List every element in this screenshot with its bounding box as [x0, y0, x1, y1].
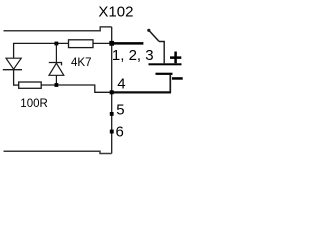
pin 6 node — [110, 130, 114, 134]
resistor 4K7 body — [69, 40, 94, 48]
connector X102 body line — [111, 27, 113, 154]
junction node rail2/zener — [55, 83, 59, 87]
resistor 100R body — [19, 82, 42, 88]
switch lever — [147, 29, 150, 32]
wire into 100R — [13, 84, 19, 86]
battery positive plate — [149, 63, 182, 65]
wire 4K7 to connector pin 1,2,3 — [93, 42, 112, 44]
wire switch to battery + — [159, 42, 164, 64]
plus sign — [170, 52, 181, 64]
pin 4 node — [110, 90, 114, 94]
pin 1,2,3 node — [109, 41, 114, 46]
wire battery - to pin 4 — [169, 75, 171, 93]
thick wire pins 1,2,3 to switch — [112, 42, 144, 45]
wire bottom rail — [4, 151, 112, 153]
wire main row to 4K7 — [14, 43, 69, 58]
svg-text:4: 4 — [117, 75, 125, 92]
diode D1 (left) — [3, 58, 22, 69]
svg-text:1, 2, 3: 1, 2, 3 — [112, 47, 154, 64]
svg-text:5: 5 — [116, 102, 124, 119]
junction node rail1/zener — [55, 42, 59, 46]
wire 100R to jog to pin 4 — [41, 85, 112, 92]
svg-text:100R: 100R — [20, 98, 48, 110]
battery negative plate — [156, 73, 173, 75]
svg-text:4K7: 4K7 — [71, 57, 91, 69]
zener diode Z1 — [49, 43, 64, 85]
svg-text:6: 6 — [116, 124, 124, 141]
wire top rail — [4, 27, 112, 31]
pin 5 node — [110, 112, 114, 116]
wire diode to 100R row — [13, 70, 15, 85]
minus sign — [172, 77, 183, 80]
svg-text:X102: X102 — [98, 4, 133, 21]
